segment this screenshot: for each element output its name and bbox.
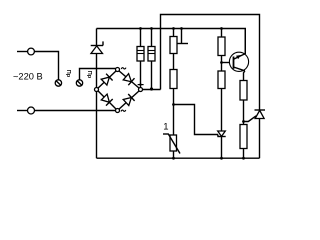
plus mark tick xyxy=(138,84,144,86)
resistor R6 xyxy=(218,29,225,72)
junction dot xyxy=(150,27,153,30)
resistor R8 xyxy=(240,81,247,125)
diode VD2 (bridge W-N arm) xyxy=(98,71,116,88)
trimmer R5 xyxy=(163,105,180,159)
thyristor VS2 xyxy=(255,110,266,158)
diode VD5 (bridge S-E arm) xyxy=(119,91,139,109)
junction dot xyxy=(150,87,153,90)
bottom bus wire xyxy=(97,157,260,159)
svg-text:1: 1 xyxy=(163,122,168,133)
node S (bridge AC bottom) xyxy=(116,109,120,113)
tilde AC mark bottom xyxy=(121,110,126,112)
top bus wire xyxy=(97,29,246,55)
wire (gate path to VS1) xyxy=(174,105,219,137)
junction dot xyxy=(172,27,175,30)
diode VD3 (bridge N-E arm) xyxy=(119,71,139,88)
svg-text:~220 В: ~220 В xyxy=(13,72,43,82)
wire xyxy=(96,91,98,158)
resistor R9 xyxy=(240,125,247,159)
fuse F2 xyxy=(76,80,82,86)
wire xyxy=(35,110,116,112)
gate wire VS2 xyxy=(244,116,257,122)
collector wire xyxy=(244,71,245,81)
junction dot xyxy=(172,103,175,106)
emitter wire xyxy=(244,29,246,55)
base wire xyxy=(222,62,234,64)
tilde AC mark top xyxy=(121,68,126,70)
junction dot xyxy=(220,157,223,160)
ballast resistor R2 (2W marks) xyxy=(148,29,155,90)
terminal X1 xyxy=(17,48,34,55)
wire xyxy=(34,52,58,80)
resistor R7 xyxy=(218,71,225,131)
junction dot xyxy=(139,27,142,30)
junction dot xyxy=(220,27,223,30)
fuse F1 xyxy=(55,80,61,86)
transistor VT1 xyxy=(229,52,248,71)
junction dot xyxy=(242,120,245,123)
diode VD4 (bridge W-S arm) xyxy=(98,91,116,109)
node N (bridge AC top) xyxy=(116,68,120,72)
junction dot (base tap) xyxy=(220,61,223,64)
ballast resistor R1 (2W marks) xyxy=(137,29,144,88)
wire DC rail around box xyxy=(161,15,260,111)
node W (bridge minus) xyxy=(95,88,99,92)
wiper tap xyxy=(178,29,189,44)
svg-text:Пр: Пр xyxy=(86,71,92,79)
junction dot xyxy=(172,157,175,160)
resistor R3 xyxy=(170,29,177,70)
node E (bridge plus) xyxy=(139,88,143,92)
junction dot xyxy=(139,83,141,85)
junction dot xyxy=(242,157,245,160)
zener VD1 xyxy=(91,29,103,88)
wire (E corner to rail) xyxy=(142,89,160,91)
junction dot xyxy=(180,27,183,30)
resistor R4 xyxy=(170,70,177,105)
terminal X2 xyxy=(17,107,35,114)
svg-text:Пр: Пр xyxy=(65,70,71,78)
thyristor VS1 xyxy=(217,131,225,158)
wire xyxy=(80,69,116,80)
